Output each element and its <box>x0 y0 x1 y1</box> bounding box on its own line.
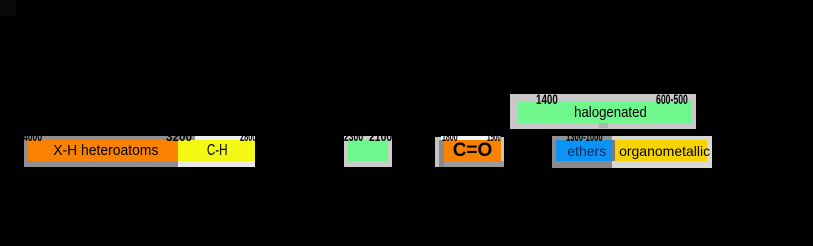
top strip light <box>612 136 712 140</box>
top strip dark <box>24 136 195 140</box>
number 2300 <box>344 130 363 143</box>
number 1400 <box>536 92 558 106</box>
bottom strip dark <box>24 161 178 167</box>
left column <box>552 140 556 169</box>
blue bar ethers <box>556 140 613 162</box>
top strip light <box>195 136 255 140</box>
faint corner square <box>0 0 16 16</box>
bottom strip light <box>178 161 255 167</box>
left column <box>24 140 28 168</box>
number 1800 <box>442 130 458 143</box>
bottom dark strip <box>444 161 504 167</box>
frame bottom notch <box>599 123 608 128</box>
orange bar X-H heteroatoms <box>28 140 178 162</box>
gap column <box>612 140 615 162</box>
number 600-500 <box>656 92 688 106</box>
top strip dark <box>552 136 612 140</box>
number 1500 <box>487 130 501 143</box>
green bar halogenated <box>518 101 691 123</box>
green bar <box>348 140 388 162</box>
frame <box>344 136 392 167</box>
number 4000 <box>23 130 42 143</box>
bottom strip dark <box>552 161 612 168</box>
number 2100 <box>369 130 392 143</box>
right column <box>707 140 712 162</box>
number 1300-1000 <box>566 130 603 143</box>
gold bar organometallic <box>615 140 707 162</box>
white strip <box>441 136 501 140</box>
dark left column <box>439 140 444 167</box>
bottom strip light <box>612 161 712 168</box>
frame <box>435 137 504 168</box>
orange bar C=O <box>444 140 501 162</box>
number 2800 <box>240 130 256 143</box>
number 3200 <box>166 130 192 143</box>
yellow bar C-H <box>178 140 255 162</box>
frame <box>510 94 696 129</box>
